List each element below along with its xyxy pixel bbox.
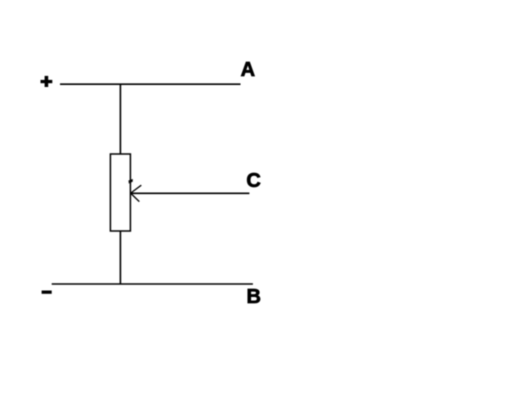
tick mark on potentiometer right edge <box>129 180 133 183</box>
svg-text:A: A <box>241 59 255 81</box>
potentiometer body <box>110 154 130 231</box>
node + (positive terminal label) <box>41 76 53 87</box>
svg-text:B: B <box>247 286 261 308</box>
wire top rail (from + to A) <box>60 83 241 85</box>
wiper wire (horizontal, from C) <box>131 192 250 194</box>
wire from top rail down to potentiometer <box>119 84 121 154</box>
wiper arrowhead upper barb <box>131 185 142 193</box>
svg-text:C: C <box>246 170 260 192</box>
wiper arrowhead lower barb <box>131 193 140 201</box>
node - (negative terminal label) <box>42 291 52 294</box>
wire from potentiometer down to bottom rail <box>119 231 121 284</box>
wire bottom rail (from - to B) <box>52 283 253 285</box>
